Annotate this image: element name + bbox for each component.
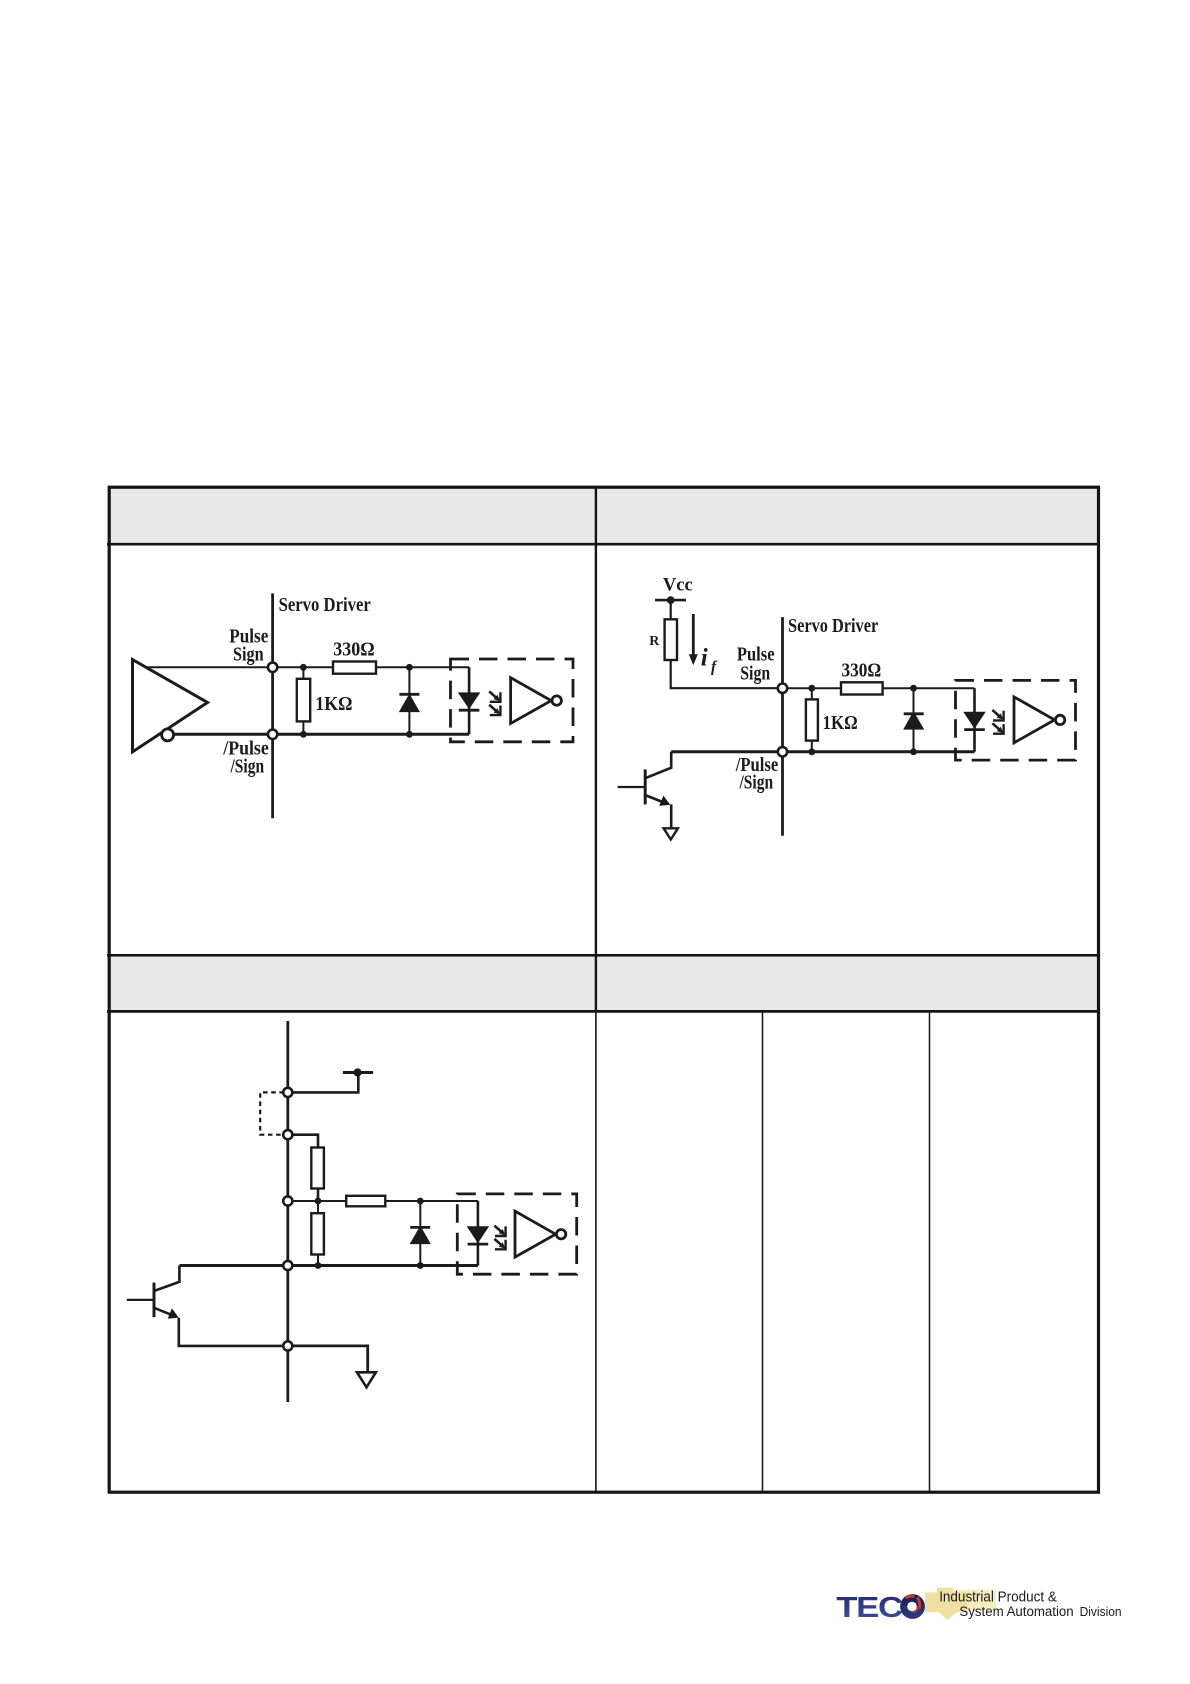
table row separator under header 1 [107, 543, 1100, 546]
optocoupler dashed box U2 [451, 659, 574, 742]
diode D2 wire [913, 688, 915, 752]
wire bottom row (node 4) [179, 1264, 478, 1267]
transistor Q2 base lead [127, 1299, 154, 1301]
light arrows [494, 1226, 505, 1250]
wire resistor R down and right to Pulse Sign node [671, 660, 778, 688]
resistor R [665, 619, 677, 660]
logo yellow arrow [925, 1588, 967, 1620]
junction dot top of diode [910, 685, 917, 692]
diode D3 wire [419, 1201, 421, 1266]
Vcc dot [667, 596, 675, 604]
table column divider lower b [762, 1012, 764, 1492]
emitter wire down and right to node 5 [179, 1318, 288, 1346]
node 1 [283, 1088, 292, 1097]
svg-text:330Ω: 330Ω [841, 660, 881, 681]
resistor 1Kohm R4 [811, 688, 813, 752]
junction dot top of diode [406, 664, 413, 671]
svg-text:330Ω: 330Ω [333, 640, 374, 661]
ground [357, 1372, 376, 1387]
wire node 1 to supply rail [288, 1073, 359, 1093]
node 3 [283, 1196, 292, 1205]
svg-text:/Sign: /Sign [739, 773, 774, 794]
logo O white hole [907, 1602, 917, 1612]
servo driver boundary line [286, 1021, 289, 1402]
node /Pulse /Sign terminal [268, 730, 277, 739]
diode D3 [411, 1227, 431, 1244]
svg-text:Sign: Sign [233, 645, 264, 666]
diode D1 [400, 695, 419, 712]
wire top (Pulse Sign line) [783, 687, 975, 689]
svg-text:Servo Driver: Servo Driver [279, 595, 371, 616]
Vcc supply bar [655, 599, 686, 602]
resistor 330ohm R1 [333, 662, 376, 674]
optocoupler LED wire [477, 1201, 480, 1266]
node 2 [283, 1130, 292, 1139]
wire node 2 to resistor [288, 1135, 318, 1148]
svg-text:System Automation: System Automation [959, 1604, 1073, 1620]
opto output buffer triangle [511, 678, 562, 724]
transistor Q1 emitter with arrow [646, 796, 665, 804]
resistor upper [311, 1148, 324, 1189]
servo driver boundary line [271, 593, 274, 818]
wire bottom (/Pulse /Sign line) [173, 733, 469, 736]
wire top row (node 3) [288, 1200, 478, 1202]
logo TECO letters [836, 1591, 903, 1624]
diode D1 wire [408, 667, 410, 734]
svg-text:i: i [701, 645, 708, 672]
dashed strap between node 1 and node 2 [260, 1092, 284, 1134]
supply rail bar [343, 1071, 373, 1074]
line driver inverting bubble [162, 729, 174, 741]
node 4 [283, 1261, 292, 1270]
junction dot bottom of diode [406, 731, 413, 738]
resistor 1Kohm lower [317, 1201, 319, 1266]
table header row 1 gray fill [110, 488, 1097, 543]
svg-text:1KΩ: 1KΩ [823, 713, 858, 734]
node Pulse Sign terminal [268, 663, 277, 672]
transistor Q2 emitter with arrow [155, 1308, 174, 1316]
light arrows [992, 710, 1003, 734]
table outer border [109, 487, 1098, 1492]
wire node 5 to ground [288, 1346, 368, 1372]
transistor Q1 base bar [644, 769, 647, 804]
logo O red swirl [906, 1596, 920, 1612]
optocoupler LED [468, 1227, 489, 1244]
optocoupler LED [964, 712, 985, 729]
svg-text:Vcc: Vcc [663, 576, 693, 596]
table row separator under row 1 [107, 954, 1100, 957]
table row separator under header 2 [107, 1010, 1100, 1013]
resistor 330ohm R3 [841, 682, 883, 694]
optocoupler LED wire [468, 667, 471, 734]
emitter wire down [670, 804, 673, 827]
junction dot top of 1K [300, 664, 307, 671]
resistor 1Kohm R2 [302, 667, 304, 734]
svg-text:TEC: TEC [836, 1591, 903, 1624]
junction dot bottom of diode [910, 748, 917, 755]
svg-text:Pulse: Pulse [737, 645, 775, 666]
svg-text:Servo Driver: Servo Driver [788, 616, 878, 637]
line driver U1 triangle [133, 660, 208, 752]
junction dot top of 1K [808, 685, 815, 692]
junction dot diode top [417, 1198, 424, 1205]
opto output buffer triangle [1014, 697, 1065, 743]
junction dot diode bottom [417, 1262, 424, 1269]
optocoupler LED [459, 693, 480, 710]
junction dot resistor bottom row [315, 1262, 322, 1269]
wire bottom (/Pulse /Sign line) [671, 750, 974, 753]
light arrows [489, 691, 500, 715]
svg-text:R: R [649, 634, 660, 649]
diode D2 [904, 712, 923, 729]
svg-text:Division: Division [1080, 1604, 1122, 1619]
table middle column divider (lower half) [595, 1011, 597, 1492]
optocoupler dashed box U4 [457, 1194, 576, 1274]
logo O disc [900, 1594, 925, 1619]
ground [664, 828, 678, 839]
wire resistor to node 3 row [317, 1189, 320, 1202]
opto output buffer triangle [515, 1211, 566, 1257]
wire top (Pulse Sign line) [147, 666, 469, 668]
transistor Q2 base bar [153, 1283, 156, 1318]
svg-text:1KΩ: 1KΩ [315, 694, 352, 715]
current arrow if [692, 614, 695, 656]
table header row 2 gray fill [110, 957, 1097, 1010]
svg-text:/Sign: /Sign [230, 756, 265, 777]
junction dot bottom of 1K [300, 731, 307, 738]
transistor Q2 collector wire [155, 1266, 179, 1291]
logo yellow arrow pale part [957, 1590, 996, 1612]
table middle column divider (upper half) [595, 487, 597, 1011]
wire Vcc to resistor R [670, 600, 672, 619]
node 5 [283, 1341, 292, 1350]
transistor Q1 collector wire [646, 752, 671, 778]
node Pulse Sign terminal [778, 684, 787, 693]
junction dot bottom of 1K [808, 748, 815, 755]
junction dot resistor top row [315, 1198, 322, 1205]
supply rail dot [354, 1068, 362, 1076]
table column divider lower c [929, 1012, 931, 1492]
optocoupler dashed box U3 [956, 680, 1076, 760]
svg-text:Industrial Product &: Industrial Product & [939, 1589, 1057, 1606]
servo driver boundary line [781, 617, 784, 836]
resistor horizontal [346, 1196, 385, 1207]
transistor Q1 base lead [618, 786, 646, 788]
node /Pulse /Sign terminal [778, 747, 787, 756]
optocoupler LED wire [973, 688, 976, 752]
svg-text:Sign: Sign [740, 664, 770, 685]
